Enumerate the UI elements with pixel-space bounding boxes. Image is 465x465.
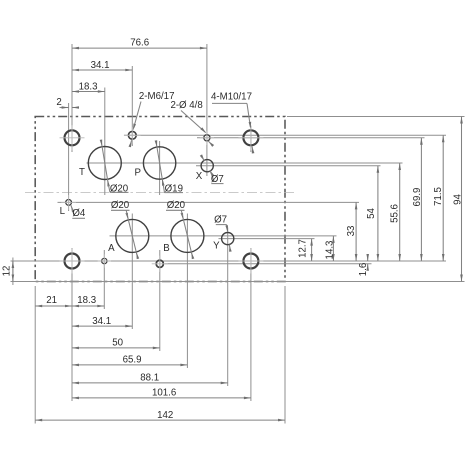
leader + label Ø4 (port L) xyxy=(71,205,86,219)
svg-text:2: 2 xyxy=(56,97,61,108)
svg-text:88.1: 88.1 xyxy=(140,373,159,384)
svg-text:Y: Y xyxy=(213,241,220,252)
dimension 94 xyxy=(452,117,463,282)
dimension 76.6 xyxy=(72,37,207,49)
port X Ø7 xyxy=(201,160,213,172)
svg-text:18.3: 18.3 xyxy=(79,82,98,93)
svg-text:X: X xyxy=(196,171,203,182)
svg-text:Ø19: Ø19 xyxy=(165,184,183,195)
svg-text:Ø20: Ø20 xyxy=(111,200,130,211)
pin hole Ø4/8 top xyxy=(200,131,214,145)
svg-text:65.9: 65.9 xyxy=(123,355,142,366)
column line pin hole bottom / 18.3 xyxy=(103,250,105,309)
leader + label Ø7 (port Y) xyxy=(214,215,232,252)
dimension 14.3 xyxy=(325,236,336,261)
svg-text:4-M10/17: 4-M10/17 xyxy=(211,92,252,103)
svg-text:Ø4: Ø4 xyxy=(72,208,86,219)
row line M10/pin holes (69.9) xyxy=(197,137,425,139)
svg-text:71.5: 71.5 xyxy=(433,187,444,206)
label Y xyxy=(213,241,220,252)
svg-text:2-Ø 4/8: 2-Ø 4/8 xyxy=(170,100,202,111)
svg-text:50: 50 xyxy=(112,338,123,349)
column line T port centreline xyxy=(104,147,106,196)
column line M6 bottom / 50 xyxy=(159,250,161,351)
dimension 18.3 top xyxy=(72,82,105,93)
row line bottom M6 hole (-1.6) xyxy=(165,263,372,265)
label L xyxy=(60,206,66,217)
dimension 101.6 xyxy=(72,388,251,400)
dimension 33 xyxy=(346,202,358,261)
port L Ø4 xyxy=(61,195,76,210)
row line T-P ports (55.6) xyxy=(87,162,403,164)
dimension 34.1 top xyxy=(72,60,132,72)
dimension 2 (L offset) xyxy=(56,97,79,109)
dimension 69.9 xyxy=(412,138,423,261)
label X xyxy=(196,171,203,182)
label T xyxy=(79,167,85,178)
port T Ø20 xyxy=(88,147,121,180)
svg-text:P: P xyxy=(134,168,140,179)
column line P port centreline xyxy=(159,141,161,195)
svg-text:Ø7: Ø7 xyxy=(211,174,224,185)
port A Ø20 xyxy=(116,219,149,252)
port B Ø20 xyxy=(171,219,204,252)
column line Y / 88.1 (bottom) xyxy=(227,250,229,386)
leader + label Ø20 (port B) xyxy=(166,200,194,259)
svg-text:14.3: 14.3 xyxy=(325,241,336,260)
column line T port / 18.3 xyxy=(104,88,106,147)
horizontal centerline of plate xyxy=(25,192,296,194)
port Y Ø7 xyxy=(222,233,234,245)
dimension 50 xyxy=(72,338,160,350)
port P Ø19 xyxy=(143,147,175,179)
label A xyxy=(108,243,115,254)
dimension 142 xyxy=(35,410,285,422)
column line left edge (bottom) xyxy=(34,286,36,424)
row line bolt-hole datum (y=0) xyxy=(11,260,447,262)
svg-text:12.7: 12.7 xyxy=(298,239,309,258)
label P xyxy=(134,168,140,179)
mounting hole M10 bottom-left xyxy=(60,249,85,274)
svg-text:33: 33 xyxy=(346,226,357,237)
svg-text:T: T xyxy=(79,167,85,178)
dimension 21 xyxy=(35,295,72,307)
row line X port (54) xyxy=(196,165,381,167)
label B xyxy=(163,243,169,254)
column line 12 dim (left) xyxy=(12,258,14,286)
svg-text:L: L xyxy=(60,206,66,217)
mounting hole M10 top-right xyxy=(238,125,263,150)
svg-text:18.3: 18.3 xyxy=(77,295,96,306)
column line right edge (bottom) xyxy=(284,286,286,424)
column line datum x=0 (bottom) xyxy=(71,248,73,401)
dimension 12 xyxy=(2,261,15,282)
M6 hole bottom xyxy=(152,256,168,272)
svg-text:B: B xyxy=(163,243,169,254)
plate outline (phantom line rectangle 142x94) xyxy=(35,117,285,282)
dimension 54 xyxy=(366,166,379,261)
row line A-B ports (14.3) xyxy=(110,235,337,237)
leader + label Ø20 (port A) xyxy=(111,200,139,259)
svg-text:69.9: 69.9 xyxy=(412,188,423,207)
svg-text:Ø20: Ø20 xyxy=(110,183,129,194)
column line datum x=0 (top) xyxy=(71,44,73,152)
row line L port (33) xyxy=(58,201,360,203)
dimension 1.6 (arrows outside) xyxy=(358,254,369,276)
column line B / 65.9 (bottom) xyxy=(186,259,188,368)
svg-text:76.6: 76.6 xyxy=(130,37,149,48)
pin hole Ø4/8 bottom xyxy=(98,254,111,267)
svg-text:Ø7: Ø7 xyxy=(214,215,227,226)
svg-text:34.1: 34.1 xyxy=(91,60,110,71)
svg-text:21: 21 xyxy=(46,295,57,306)
column line right M10 (top) xyxy=(250,126,252,152)
svg-text:54: 54 xyxy=(366,208,377,219)
leader + label Ø20 (port T) xyxy=(100,140,129,195)
column line pin hole + X / 76.6 xyxy=(206,44,208,176)
column line M6 hole / 34.1 (top) xyxy=(131,66,133,146)
column line L port / 2 xyxy=(68,103,70,211)
column line B port centreline xyxy=(186,214,188,260)
svg-text:101.6: 101.6 xyxy=(152,388,176,399)
svg-text:12: 12 xyxy=(2,266,13,277)
bottom edge extension for 94/12 xyxy=(11,281,465,283)
leader 2-Ø 4/8 xyxy=(170,100,214,147)
M6 hole top xyxy=(124,127,141,144)
svg-text:2-M6/17: 2-M6/17 xyxy=(139,91,175,102)
mounting hole M10 bottom-right xyxy=(238,249,263,274)
svg-text:34.1: 34.1 xyxy=(92,316,111,327)
svg-text:Ø20: Ø20 xyxy=(167,200,186,211)
column line Y port centreline xyxy=(227,228,229,251)
row line M6-holes (71.5) xyxy=(124,134,446,136)
column line A port centreline xyxy=(131,214,133,260)
dimension 65.9 xyxy=(72,355,187,367)
mounting hole M10 top-left xyxy=(60,125,85,150)
dimension 55.6 xyxy=(389,163,401,261)
leader 2-M6/17 xyxy=(129,91,175,147)
dimension 18.3 bottom xyxy=(72,295,104,307)
dimension 34.1 bottom xyxy=(72,316,132,328)
svg-text:A: A xyxy=(108,243,115,254)
leader + label Ø7 (port X) xyxy=(200,154,224,184)
leader + label Ø19 (port P) xyxy=(155,140,183,194)
dimension 12.7 xyxy=(298,239,313,261)
svg-text:142: 142 xyxy=(157,410,173,421)
dimension 71.5 xyxy=(433,135,445,261)
row line Y port (12.7) xyxy=(219,238,315,240)
svg-text:1.6: 1.6 xyxy=(358,263,369,276)
dimension 88.1 xyxy=(72,373,228,385)
top edge extension for 94 xyxy=(287,116,465,118)
column line right M10 / 101.6 (bottom) xyxy=(250,248,252,401)
svg-text:94: 94 xyxy=(452,194,463,205)
svg-text:55.6: 55.6 xyxy=(389,204,400,223)
column line A / 34.1 (bottom) xyxy=(131,259,133,329)
leader 4-M10/17 xyxy=(211,92,254,154)
